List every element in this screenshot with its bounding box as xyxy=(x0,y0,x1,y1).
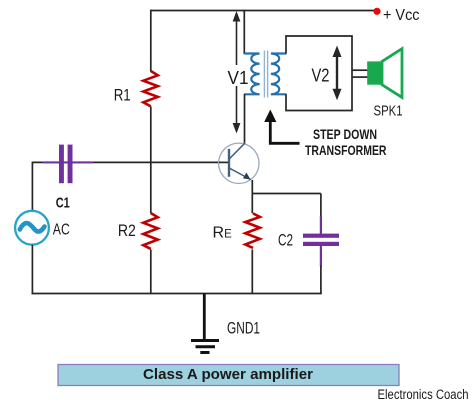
wire R1 branch vertical xyxy=(150,10,152,72)
svg-text:R2: R2 xyxy=(118,221,136,240)
svg-text:R1: R1 xyxy=(114,85,131,104)
capacitor C2 lead top xyxy=(320,216,322,234)
svg-text:Class A power amplifier: Class A power amplifier xyxy=(143,366,313,383)
wire R2 to bottom rail xyxy=(150,250,152,294)
node Vcc xyxy=(373,8,380,15)
capacitor C2 lead bottom xyxy=(320,246,322,267)
capacitor C1 xyxy=(59,145,64,184)
speaker SPK1 xyxy=(367,61,382,84)
resistor R2 xyxy=(143,213,158,249)
svg-text:C1: C1 xyxy=(56,195,70,212)
ground GND1 xyxy=(203,294,206,341)
wire C2 top xyxy=(320,194,322,218)
caption box xyxy=(58,365,399,386)
capacitor C2 xyxy=(303,234,339,238)
arrow V2 measure xyxy=(333,46,342,101)
svg-text:C2: C2 xyxy=(278,231,293,250)
transistor Q1 xyxy=(219,143,259,183)
wire left branch upper xyxy=(31,162,33,211)
wire transformer feed xyxy=(243,10,245,54)
arrow V1 measure xyxy=(233,11,241,134)
svg-text:SPK1: SPK1 xyxy=(374,103,403,120)
svg-text:GND1: GND1 xyxy=(227,319,260,338)
wire RE bottom xyxy=(251,250,253,294)
svg-text:Electronics Coach: Electronics Coach xyxy=(378,387,469,402)
wire emitter xyxy=(251,180,253,213)
svg-text:V2: V2 xyxy=(312,65,330,85)
wire bottom rail xyxy=(32,293,322,295)
label V1 xyxy=(226,65,250,86)
callout arrow step-down xyxy=(270,120,299,144)
transformer T1 primary xyxy=(244,54,259,95)
source AC V-sin xyxy=(15,211,49,245)
wire emitter junction xyxy=(252,193,321,195)
wire secondary loop box xyxy=(286,36,352,111)
svg-text:+ Vcc: + Vcc xyxy=(383,7,420,24)
resistor R1 xyxy=(143,71,158,106)
wire C2 bottom xyxy=(320,266,322,294)
svg-text:STEP DOWN: STEP DOWN xyxy=(313,126,377,142)
wire collector xyxy=(244,94,246,144)
capacitor C1 lead xyxy=(42,161,94,163)
resistor RE xyxy=(245,213,260,248)
svg-text:AC: AC xyxy=(53,222,70,239)
wire top rail xyxy=(150,10,374,12)
wire base line xyxy=(32,161,229,163)
svg-text:TRANSFORMER: TRANSFORMER xyxy=(305,142,387,158)
transformer T1 secondary xyxy=(271,54,287,95)
wire left branch lower xyxy=(31,245,33,294)
wire speaker taps xyxy=(352,69,368,71)
wire R1 to R2 xyxy=(150,107,152,214)
transformer T1 core xyxy=(263,51,265,98)
svg-text:V1: V1 xyxy=(228,68,249,88)
